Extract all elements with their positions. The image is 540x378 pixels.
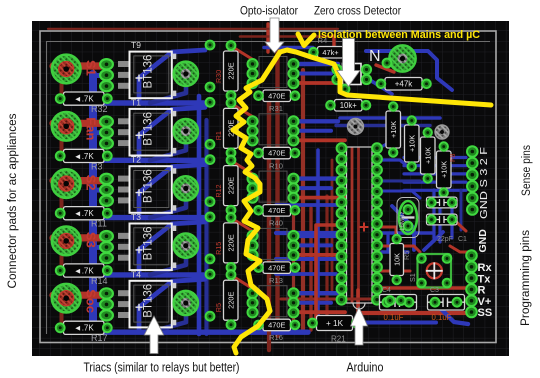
svg-text:S1: S1 (408, 273, 417, 282)
svg-text:+10K: +10K (389, 121, 398, 138)
svg-text:+10K: +10K (423, 147, 432, 164)
svg-text:R21: R21 (331, 335, 346, 344)
svg-text:S2: S2 (84, 175, 99, 191)
svg-text:R5: R5 (402, 251, 411, 260)
svg-text:T9: T9 (131, 40, 141, 50)
svg-text:◄.7K: ◄.7K (74, 209, 95, 218)
svg-text:470E: 470E (268, 263, 285, 272)
svg-text:16MHz: 16MHz (399, 211, 406, 231)
svg-text:R1: R1 (214, 131, 223, 140)
svg-text:220E: 220E (226, 62, 235, 79)
svg-text:0.1uF: 0.1uF (432, 313, 452, 322)
svg-text:22pF: 22pF (437, 236, 453, 243)
svg-text:+47k: +47k (395, 80, 414, 89)
svg-text:R11: R11 (91, 219, 107, 229)
svg-text:R3: R3 (91, 161, 103, 171)
svg-text:47k+: 47k+ (322, 48, 338, 57)
svg-text:R10: R10 (269, 161, 283, 170)
svg-text:GND: GND (477, 229, 489, 253)
svg-text:Triacs (similar to relays but: Triacs (similar to relays but better) (84, 361, 240, 375)
svg-text:Tx: Tx (478, 273, 492, 285)
svg-text:◄.7K: ◄.7K (74, 94, 95, 103)
svg-text:R5: R5 (214, 303, 223, 312)
svg-text:Opto-isolator: Opto-isolator (240, 6, 298, 18)
svg-text:+10K: +10K (407, 135, 416, 152)
svg-text:R16: R16 (269, 333, 283, 342)
svg-text:Rx: Rx (478, 262, 493, 274)
svg-text:470E: 470E (268, 206, 285, 215)
svg-text:V+: V+ (478, 296, 492, 308)
svg-text:T3: T3 (131, 212, 141, 222)
svg-text:S1: S1 (84, 60, 99, 76)
svg-text:S3: S3 (84, 232, 99, 248)
svg-text:10k+: 10k+ (340, 101, 358, 110)
svg-text:R31: R31 (269, 104, 283, 113)
svg-text:C1: C1 (458, 236, 467, 243)
svg-text:R30: R30 (214, 70, 223, 83)
svg-text:Zero cross Detector: Zero cross Detector (314, 6, 401, 18)
svg-text:R14: R14 (91, 276, 108, 286)
svg-text:Soc: Soc (84, 289, 99, 313)
svg-text:C3: C3 (430, 287, 439, 294)
svg-text:220E: 220E (226, 177, 235, 194)
svg-text:Connector pads for ac applianc: Connector pads for ac appliances (7, 113, 19, 288)
svg-text:BT136: BT136 (142, 284, 154, 318)
svg-text:T2: T2 (131, 155, 141, 165)
svg-text:+10K: +10K (439, 161, 448, 178)
svg-text:F8: F8 (448, 154, 457, 162)
svg-text:470E: 470E (268, 321, 285, 330)
svg-text:R12: R12 (214, 184, 223, 197)
svg-text:N: N (369, 48, 381, 65)
svg-text:470E: 470E (268, 149, 285, 158)
svg-text:10K: 10K (392, 253, 401, 266)
svg-text:T1: T1 (131, 97, 141, 107)
svg-text:BT136: BT136 (142, 112, 154, 146)
svg-text:220E: 220E (226, 292, 235, 309)
svg-text:◄.7K: ◄.7K (74, 152, 95, 161)
svg-text:+ 1K: + 1K (326, 319, 344, 328)
svg-text:◄.7K: ◄.7K (74, 266, 95, 275)
svg-text:220E: 220E (226, 234, 235, 251)
svg-text:Fan: Fan (84, 117, 99, 140)
svg-text:BT136: BT136 (142, 55, 154, 89)
svg-text:R: R (478, 285, 486, 297)
svg-text:0.1uF: 0.1uF (384, 313, 404, 322)
svg-text:R15: R15 (214, 242, 223, 255)
svg-text:BT136: BT136 (142, 227, 154, 261)
svg-text:BT136: BT136 (142, 169, 154, 203)
svg-text:470E: 470E (268, 91, 285, 100)
svg-text:◄.7K: ◄.7K (74, 324, 95, 333)
svg-text:C4: C4 (382, 287, 391, 294)
svg-text:Sense pins: Sense pins (521, 145, 533, 196)
svg-text:R32: R32 (91, 104, 108, 114)
svg-text:T4: T4 (131, 269, 141, 279)
svg-text:R40: R40 (269, 219, 283, 228)
svg-text:Programming pins: Programming pins (520, 230, 532, 326)
svg-text:Arduino: Arduino (347, 361, 384, 375)
svg-text:GND S 3 2 F: GND S 3 2 F (479, 147, 490, 219)
svg-text:SS: SS (478, 307, 493, 319)
svg-text:R13: R13 (269, 276, 283, 285)
svg-text:R17: R17 (91, 333, 108, 343)
